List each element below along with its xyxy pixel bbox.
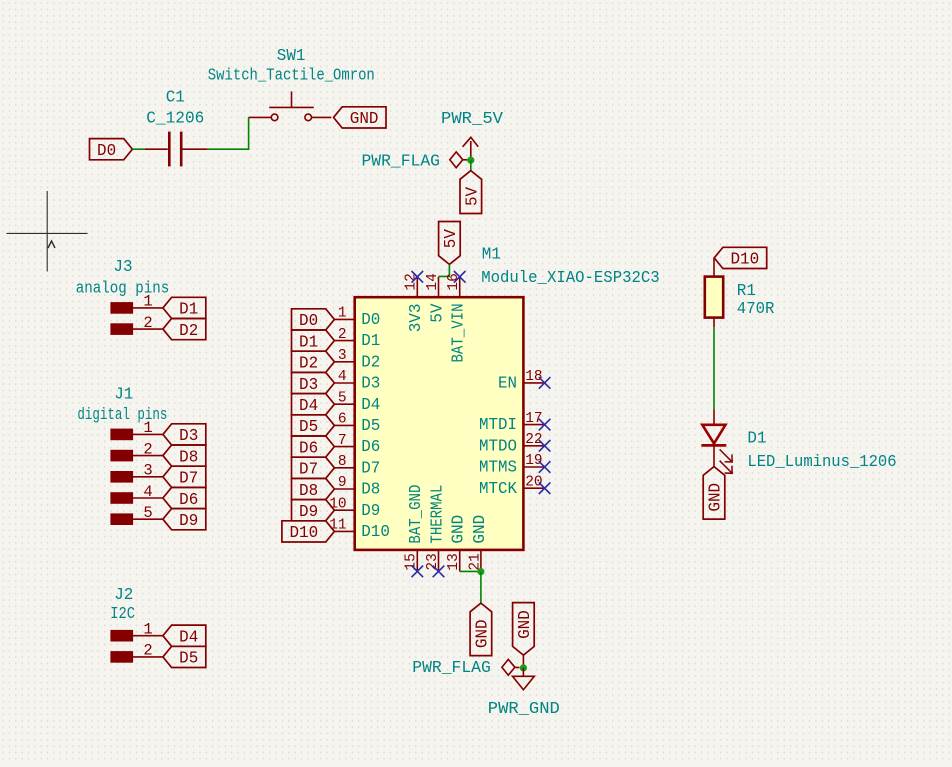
- svg-text:D4: D4: [299, 397, 318, 416]
- label D2 (J3): [163, 319, 206, 341]
- svg-text:GND: GND: [474, 619, 493, 648]
- M1 pin 18 (EN) right: [498, 369, 545, 393]
- svg-text:D10: D10: [361, 523, 390, 542]
- M1 pin 5 (D4): [334, 390, 380, 414]
- svg-text:11: 11: [329, 518, 346, 534]
- label 5V (upper): [460, 171, 482, 214]
- wire R1 to D1: [713, 327, 715, 409]
- svg-text:D4: D4: [179, 629, 198, 648]
- power symbol PWR_5V: [463, 137, 479, 160]
- svg-text:5: 5: [338, 390, 347, 406]
- power flag PWR_FLAG (bottom): [502, 659, 520, 675]
- svg-text:D3: D3: [179, 427, 198, 446]
- svg-text:D4: D4: [361, 396, 380, 415]
- M1 pin 16 (BAT_VIN) top: [446, 273, 469, 362]
- J1 pin 3: [111, 462, 163, 483]
- wire D10 to R1: [713, 258, 715, 277]
- M1 pin 3 (D2): [334, 348, 380, 372]
- svg-text:18: 18: [525, 369, 542, 385]
- svg-text:D1: D1: [361, 332, 380, 351]
- J1 pin 4: [111, 483, 163, 504]
- power symbol PWR_GND: [513, 668, 535, 690]
- svg-text:J1: J1: [114, 386, 133, 405]
- svg-text:D3: D3: [299, 376, 318, 395]
- M1 pin 10 (D9): [329, 496, 380, 520]
- svg-text:D7: D7: [299, 461, 318, 480]
- label D8 (M1 left): [292, 478, 335, 500]
- label D1 (M1 left): [292, 330, 335, 352]
- svg-text:EN: EN: [498, 375, 517, 394]
- no-connect pin 17: [539, 419, 551, 431]
- svg-text:1: 1: [143, 621, 152, 639]
- svg-text:PWR_FLAG: PWR_FLAG: [362, 152, 441, 171]
- svg-text:470R: 470R: [737, 300, 775, 319]
- wire junction to GND label: [480, 572, 482, 604]
- label D4 (J2): [163, 625, 206, 647]
- svg-text:D8: D8: [299, 482, 318, 501]
- svg-text:D0: D0: [97, 142, 116, 161]
- M1 pin 4 (D3): [334, 369, 380, 393]
- svg-text:I2C: I2C: [110, 605, 135, 624]
- no-connect pin 12: [412, 271, 424, 283]
- label D6 (M1 left): [292, 436, 335, 458]
- label D10 (at R1): [714, 247, 767, 269]
- M1 pin 12 (3V3) top: [404, 273, 427, 332]
- J1 pin 5: [111, 504, 163, 525]
- M1 pin 1 (D0): [334, 306, 380, 330]
- label D9 (M1 left): [292, 500, 335, 522]
- svg-text:5: 5: [143, 504, 152, 522]
- label D1 (J3): [163, 297, 206, 319]
- svg-text:D5: D5: [179, 650, 198, 669]
- svg-text:2: 2: [143, 314, 152, 332]
- capacitor C1: [145, 132, 208, 167]
- label D10 (M1 left): [282, 521, 335, 543]
- svg-text:J2: J2: [114, 586, 133, 605]
- M1 pin 6 (D5): [334, 412, 380, 436]
- label D7 (J1): [163, 466, 206, 488]
- svg-text:D9: D9: [299, 503, 318, 522]
- svg-text:C_1206: C_1206: [146, 109, 204, 128]
- junction at PWR_GND: [520, 664, 527, 671]
- R1 lower pin: [713, 318, 715, 328]
- svg-text:3: 3: [143, 462, 152, 480]
- label 5V (lower): [439, 222, 461, 265]
- LED D1: [701, 409, 732, 473]
- label D4 (M1 left): [292, 394, 335, 416]
- svg-text:GND: GND: [450, 515, 469, 544]
- svg-text:GND: GND: [516, 610, 535, 639]
- no-connect pin 20: [539, 482, 551, 494]
- svg-text:D2: D2: [361, 353, 380, 372]
- M1 pin 11 (D10): [329, 518, 390, 542]
- svg-text:1: 1: [338, 306, 347, 322]
- svg-text:BAT_VIN: BAT_VIN: [450, 304, 469, 363]
- M1 pin 21 (GND) bottom: [467, 515, 490, 572]
- svg-text:23: 23: [425, 553, 441, 570]
- J2 pin 2: [111, 642, 163, 662]
- svg-text:Module_XIAO-ESP32C3: Module_XIAO-ESP32C3: [481, 269, 660, 288]
- label D0 (net to C1): [90, 139, 133, 161]
- J2 pin 1: [111, 621, 163, 642]
- svg-text:D0: D0: [299, 312, 318, 331]
- svg-text:MTCK: MTCK: [479, 480, 518, 499]
- label GND (to PWR_GND): [513, 603, 535, 656]
- J1 pin 2: [111, 440, 163, 461]
- svg-text:5V: 5V: [428, 303, 447, 323]
- svg-text:15: 15: [404, 553, 420, 570]
- svg-text:M1: M1: [482, 246, 501, 265]
- switch SW1 Switch_Tactile_Omron: [249, 91, 332, 120]
- svg-text:PWR_FLAG: PWR_FLAG: [412, 659, 491, 678]
- svg-text:D2: D2: [299, 355, 318, 374]
- svg-text:4: 4: [338, 369, 347, 385]
- svg-text:C1: C1: [166, 89, 185, 108]
- wire C1 to SW1: [208, 117, 249, 149]
- svg-text:GND: GND: [350, 110, 379, 129]
- svg-text:GND: GND: [471, 515, 490, 544]
- svg-text:D0: D0: [361, 311, 380, 330]
- svg-text:1: 1: [143, 293, 152, 311]
- svg-text:D7: D7: [179, 470, 198, 489]
- no-connect pin 18: [539, 377, 551, 389]
- svg-text:D5: D5: [299, 418, 318, 437]
- label GND (under M1): [470, 603, 492, 656]
- svg-text:6: 6: [338, 412, 347, 428]
- M1 pin 20 (MTCK) right: [479, 474, 545, 498]
- power flag PWR_FLAG (top): [450, 152, 468, 168]
- J3 pin 1: [111, 293, 163, 314]
- svg-text:J3: J3: [113, 258, 132, 277]
- M1 pin 8 (D7): [334, 454, 380, 478]
- label D6 (J1): [163, 487, 206, 509]
- svg-text:3V3: 3V3: [407, 304, 426, 333]
- svg-text:Switch_Tactile_Omron: Switch_Tactile_Omron: [208, 66, 375, 85]
- svg-text:D10: D10: [289, 524, 318, 543]
- wire D0 to C1: [132, 148, 145, 150]
- svg-text:D9: D9: [179, 512, 198, 531]
- svg-text:LED_Luminus_1206: LED_Luminus_1206: [747, 453, 896, 472]
- M1 pin 9 (D8): [334, 475, 380, 499]
- wire 5V label to pin 14: [439, 264, 450, 276]
- M1 pin 13 (GND) bottom: [446, 515, 469, 572]
- no-connect pin 22: [539, 440, 551, 452]
- M1 pin 7 (D6): [334, 433, 380, 457]
- label D3 (M1 left): [292, 372, 335, 394]
- label D5 (M1 left): [292, 415, 335, 437]
- svg-text:D1: D1: [299, 333, 318, 352]
- svg-text:MTMS: MTMS: [479, 459, 517, 478]
- svg-text:D5: D5: [361, 417, 380, 436]
- svg-text:22: 22: [525, 432, 542, 448]
- svg-text:PWR_5V: PWR_5V: [441, 110, 504, 129]
- label D5 (J2): [163, 646, 206, 668]
- wire pin13 to pin21 junction: [460, 570, 481, 572]
- svg-text:17: 17: [525, 411, 542, 427]
- J3 pin 2: [111, 314, 163, 335]
- svg-text:THERMAL: THERMAL: [428, 485, 447, 544]
- svg-text:D1: D1: [179, 301, 198, 320]
- module M1 body: [355, 297, 524, 550]
- svg-text:D8: D8: [179, 448, 198, 467]
- svg-text:MTDO: MTDO: [479, 437, 517, 456]
- label D8 (J1): [163, 445, 206, 467]
- M1 pin 14 (5V) top: [425, 273, 448, 323]
- svg-text:digital pins: digital pins: [77, 406, 167, 425]
- svg-text:2: 2: [143, 642, 152, 660]
- cursor crosshair: [7, 191, 88, 272]
- svg-text:D1: D1: [747, 429, 766, 448]
- svg-text:GND: GND: [707, 483, 726, 512]
- svg-text:BAT_GND: BAT_GND: [407, 485, 426, 544]
- svg-text:2: 2: [143, 440, 152, 458]
- M1 pin 19 (MTMS) right: [479, 453, 545, 477]
- svg-text:D6: D6: [179, 491, 198, 510]
- svg-text:D9: D9: [361, 502, 380, 521]
- svg-text:analog pins: analog pins: [76, 280, 170, 299]
- junction under pin 21: [477, 568, 484, 575]
- svg-text:PWR_GND: PWR_GND: [488, 700, 560, 719]
- no-connect pin 23: [433, 566, 445, 578]
- svg-text:1: 1: [143, 419, 152, 437]
- svg-text:4: 4: [143, 483, 152, 501]
- svg-text:5V: 5V: [442, 228, 461, 248]
- junction at PWR_5V: [467, 157, 474, 164]
- svg-text:10: 10: [329, 496, 346, 512]
- M1 pin 22 (MTDO) right: [479, 432, 545, 456]
- svg-text:D8: D8: [361, 481, 380, 500]
- svg-text:D6: D6: [361, 438, 380, 457]
- M1 pin 2 (D1): [334, 327, 380, 351]
- svg-text:9: 9: [338, 475, 347, 491]
- svg-text:D6: D6: [299, 439, 318, 458]
- M1 pin 15 (BAT_GND) bottom: [404, 485, 427, 572]
- no-connect pin 16: [454, 271, 466, 283]
- svg-text:13: 13: [446, 553, 462, 570]
- svg-text:D2: D2: [179, 322, 198, 341]
- svg-text:14: 14: [425, 273, 441, 290]
- J1 pin 1: [111, 419, 163, 440]
- no-connect pin 15: [412, 566, 424, 578]
- resistor R1: [705, 277, 723, 318]
- svg-text:5V: 5V: [463, 186, 482, 206]
- svg-text:3: 3: [338, 348, 347, 364]
- label D3 (J1): [163, 424, 206, 446]
- label GND (under D1): [703, 467, 725, 519]
- wire junction to 5V label: [470, 160, 472, 170]
- svg-text:7: 7: [338, 433, 347, 449]
- label D9 (J1): [163, 509, 206, 531]
- svg-text:D3: D3: [361, 375, 380, 394]
- M1 pin 23 (THERMAL) bottom: [425, 485, 448, 572]
- label D2 (M1 left): [292, 351, 335, 373]
- svg-text:8: 8: [338, 454, 347, 470]
- svg-text:19: 19: [525, 453, 542, 469]
- label D7 (M1 left): [292, 457, 335, 479]
- label GND (at SW1): [334, 107, 387, 129]
- M1 pin 17 (MTDI) right: [479, 411, 545, 435]
- svg-text:MTDI: MTDI: [479, 416, 517, 435]
- label D0 (M1 left): [292, 309, 335, 331]
- svg-text:21: 21: [467, 553, 483, 570]
- svg-text:SW1: SW1: [277, 47, 306, 66]
- svg-text:20: 20: [525, 474, 542, 490]
- svg-text:D7: D7: [361, 459, 380, 478]
- svg-text:D10: D10: [730, 251, 759, 270]
- no-connect pin 19: [539, 461, 551, 473]
- wire GND label to junction: [522, 655, 524, 668]
- svg-text:2: 2: [338, 327, 347, 343]
- svg-text:R1: R1: [737, 282, 756, 301]
